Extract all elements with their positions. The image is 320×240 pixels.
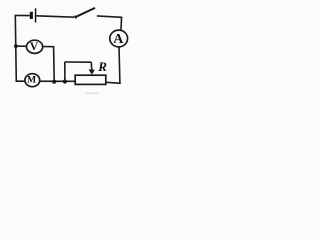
wire: switch right terminal to top-right corner — [97, 16, 122, 17]
wire: rheostat wiper branch vertical rise — [64, 62, 66, 82]
faint print-through mark bottom — [85, 93, 98, 94]
wire: rheostat wiper branch top run — [65, 61, 92, 63]
svg-text:V: V — [30, 40, 39, 53]
wire: voltmeter branch right to corner — [41, 46, 54, 48]
switch S: open blade — [75, 8, 95, 18]
background — [0, 0, 141, 98]
wire: right vertical upper (corner down to ammeter) — [120, 17, 123, 32]
wire: left vertical side — [14, 15, 17, 82]
wire: voltmeter branch left — [16, 45, 28, 47]
rheostat R: resistor box — [75, 75, 106, 84]
wire: battery to switch pivot — [36, 16, 74, 17]
wire: right vertical lower (ammeter down to bottom-right corner) — [118, 46, 121, 83]
node: junction dot left vertical / voltmeter branch — [14, 44, 18, 48]
svg-text:R: R — [97, 59, 107, 74]
battery cell: thin long plate (positive) — [35, 8, 37, 22]
wire: bottom row from left corner through motor to rheostat — [16, 80, 75, 82]
wire: voltmeter branch vertical down — [53, 46, 56, 82]
ammeter A1: circle — [110, 30, 128, 47]
battery cell: thick short plate (negative) — [30, 12, 33, 19]
node: junction dot voltmeter branch / bottom row — [52, 80, 56, 84]
wire: rheostat wiper stem down to arrow — [90, 62, 92, 70]
svg-text:M: M — [27, 74, 36, 85]
voltmeter V1: circle — [26, 40, 42, 53]
node: junction dot rheostat wiper branch / bottom row — [63, 79, 67, 83]
wire: top-left horizontal to battery — [15, 14, 30, 16]
switch S: pivot contact wedge — [74, 16, 78, 20]
wire: bottom-right horizontal to rheostat box — [106, 82, 121, 83]
rheostat wiper arrowhead — [89, 69, 95, 74]
svg-text:A: A — [113, 32, 124, 47]
motor M1: circle — [25, 74, 40, 87]
